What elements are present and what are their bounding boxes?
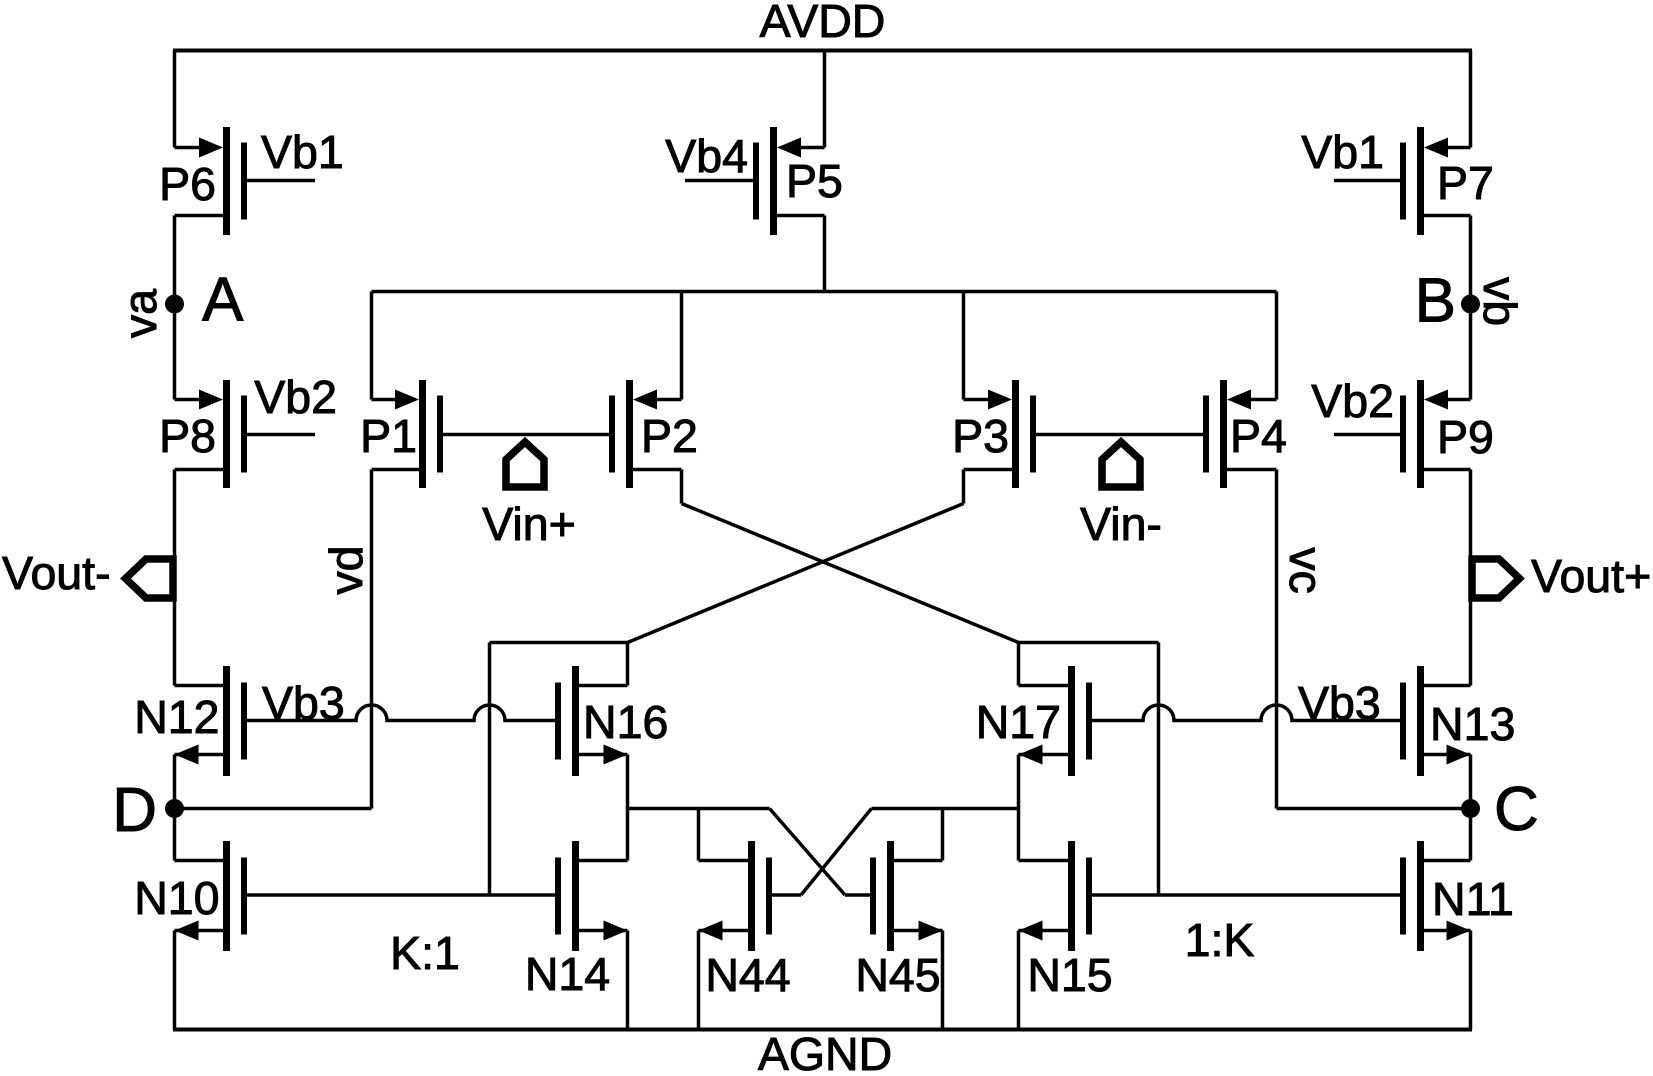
svg-text:N13: N13 — [1430, 698, 1515, 750]
svg-text:P4: P4 — [1230, 410, 1287, 462]
svg-text:Vin-: Vin- — [1080, 498, 1162, 550]
svg-text:AGND: AGND — [758, 1028, 892, 1076]
svg-text:N17: N17 — [976, 696, 1061, 748]
svg-text:N45: N45 — [855, 949, 940, 1001]
svg-text:Vb3: Vb3 — [262, 677, 345, 729]
svg-text:P8: P8 — [159, 410, 216, 462]
svg-text:C: C — [1494, 775, 1539, 844]
svg-text:vd: vd — [320, 545, 372, 594]
svg-text:Vb4: Vb4 — [665, 130, 748, 182]
svg-text:vb: vb — [1474, 277, 1526, 326]
svg-text:Vb1: Vb1 — [1301, 126, 1384, 178]
svg-text:P2: P2 — [641, 410, 698, 462]
svg-text:N15: N15 — [1027, 949, 1112, 1001]
svg-text:N11: N11 — [1432, 873, 1514, 925]
svg-text:Vout-: Vout- — [2, 547, 111, 599]
svg-text:B: B — [1415, 267, 1456, 336]
svg-text:N10: N10 — [134, 872, 219, 924]
svg-text:Vin+: Vin+ — [482, 498, 576, 550]
svg-text:Vout+: Vout+ — [1531, 550, 1651, 602]
svg-text:vc: vc — [1280, 547, 1332, 594]
svg-text:P5: P5 — [786, 155, 843, 207]
svg-text:D: D — [112, 776, 157, 845]
svg-text:Vb1: Vb1 — [261, 126, 344, 178]
svg-text:P3: P3 — [952, 410, 1009, 462]
svg-text:va: va — [114, 289, 166, 338]
svg-text:N12: N12 — [134, 691, 219, 743]
svg-text:K:1: K:1 — [390, 927, 460, 979]
svg-text:Vb3: Vb3 — [1298, 677, 1381, 729]
svg-text:1:K: 1:K — [1185, 914, 1255, 966]
svg-text:P1: P1 — [360, 410, 417, 462]
svg-text:N44: N44 — [705, 949, 790, 1001]
svg-text:AVDD: AVDD — [760, 0, 886, 47]
svg-text:N16: N16 — [583, 696, 668, 748]
svg-text:P9: P9 — [1437, 411, 1494, 463]
svg-text:N14: N14 — [525, 948, 610, 1000]
svg-text:A: A — [202, 266, 244, 335]
svg-text:P7: P7 — [1437, 157, 1494, 209]
svg-text:Vb2: Vb2 — [1311, 375, 1394, 427]
svg-text:P6: P6 — [159, 158, 216, 210]
svg-text:Vb2: Vb2 — [254, 371, 337, 423]
